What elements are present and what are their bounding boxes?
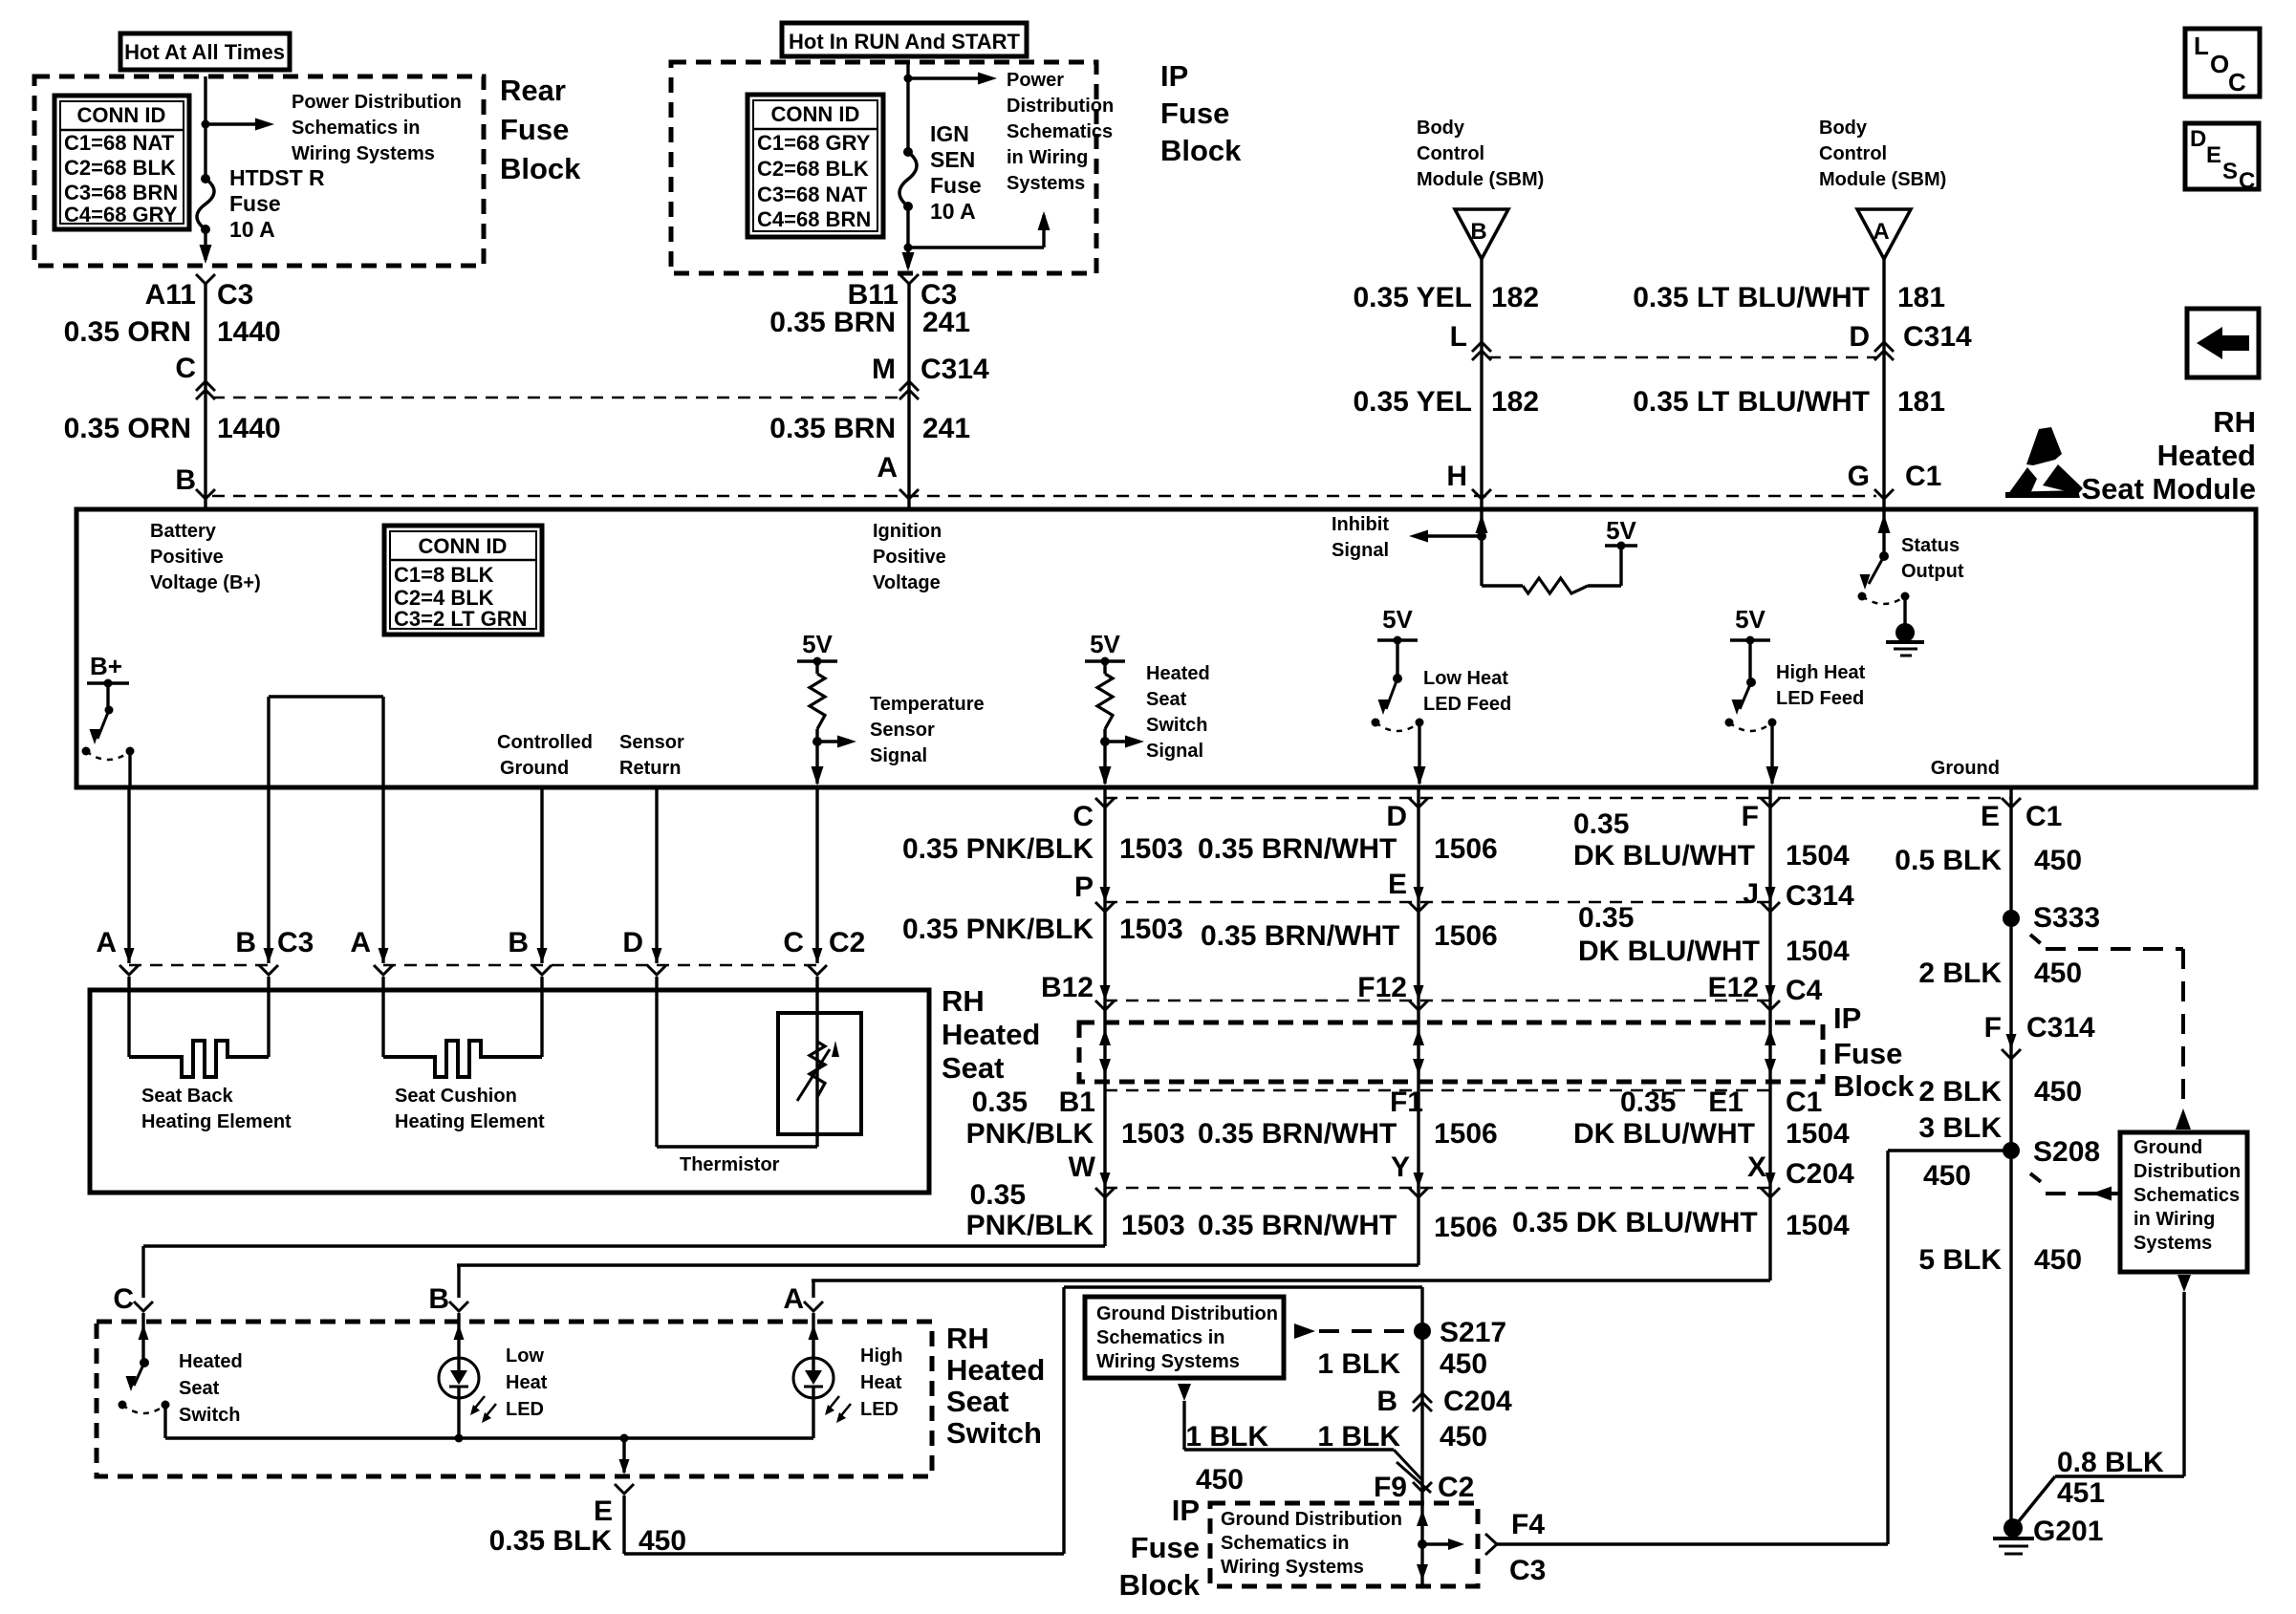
svg-text:Heat: Heat bbox=[506, 1372, 548, 1393]
svg-text:450: 450 bbox=[1196, 1464, 1244, 1496]
svg-text:A: A bbox=[350, 927, 371, 958]
svg-text:High Heat: High Heat bbox=[1776, 662, 1866, 683]
svg-text:C1: C1 bbox=[2025, 801, 2062, 832]
svg-text:450: 450 bbox=[2034, 1076, 2082, 1108]
svg-text:Controlled: Controlled bbox=[497, 732, 593, 753]
svg-text:B: B bbox=[175, 464, 196, 496]
svg-text:A: A bbox=[1873, 219, 1889, 245]
svg-text:Fuse: Fuse bbox=[1833, 1037, 1902, 1070]
svg-text:F4: F4 bbox=[1511, 1509, 1545, 1540]
svg-text:241: 241 bbox=[922, 307, 970, 338]
svg-text:450: 450 bbox=[2034, 1244, 2082, 1276]
svg-text:10 A: 10 A bbox=[229, 217, 275, 242]
svg-text:0.35 BRN: 0.35 BRN bbox=[769, 413, 896, 444]
svg-text:0.35 BRN/WHT: 0.35 BRN/WHT bbox=[1198, 1118, 1397, 1150]
svg-text:0.35: 0.35 bbox=[1578, 902, 1634, 934]
svg-text:C1: C1 bbox=[1905, 461, 1941, 492]
svg-text:182: 182 bbox=[1491, 282, 1539, 313]
svg-text:450: 450 bbox=[2034, 958, 2082, 989]
svg-text:1504: 1504 bbox=[1786, 840, 1850, 872]
svg-text:Positive: Positive bbox=[873, 547, 946, 568]
svg-text:C1=8 BLK: C1=8 BLK bbox=[394, 563, 494, 587]
svg-text:C314: C314 bbox=[1903, 321, 1972, 353]
svg-text:C3: C3 bbox=[277, 927, 314, 958]
svg-text:Schematics in: Schematics in bbox=[1096, 1327, 1225, 1348]
svg-text:C314: C314 bbox=[1786, 880, 1854, 912]
svg-text:Switch: Switch bbox=[179, 1405, 240, 1426]
svg-text:A: A bbox=[96, 927, 117, 958]
svg-text:PNK/BLK: PNK/BLK bbox=[966, 1210, 1094, 1241]
svg-text:C3=2 LT GRN: C3=2 LT GRN bbox=[394, 607, 528, 631]
svg-text:Switch: Switch bbox=[1146, 715, 1207, 736]
svg-text:Control: Control bbox=[1417, 143, 1484, 164]
svg-text:Seat Cushion: Seat Cushion bbox=[395, 1086, 517, 1107]
svg-text:E: E bbox=[594, 1496, 613, 1527]
svg-text:Heated: Heated bbox=[942, 1018, 1040, 1051]
svg-text:W: W bbox=[1069, 1151, 1096, 1183]
svg-text:Heated: Heated bbox=[1146, 663, 1210, 684]
svg-text:451: 451 bbox=[2057, 1477, 2105, 1509]
svg-text:RH: RH bbox=[942, 984, 985, 1018]
svg-text:5V: 5V bbox=[802, 630, 833, 658]
svg-text:Seat Back: Seat Back bbox=[141, 1086, 233, 1107]
svg-text:DK BLU/WHT: DK BLU/WHT bbox=[1573, 840, 1755, 872]
svg-text:Power Distribution: Power Distribution bbox=[292, 92, 462, 113]
svg-text:1504: 1504 bbox=[1786, 1210, 1850, 1241]
svg-text:Wiring Systems: Wiring Systems bbox=[292, 143, 435, 164]
svg-text:LED: LED bbox=[506, 1399, 544, 1420]
svg-text:Inhibit: Inhibit bbox=[1332, 514, 1389, 535]
svg-text:Ground: Ground bbox=[2134, 1137, 2202, 1158]
svg-text:1506: 1506 bbox=[1434, 1212, 1498, 1243]
svg-text:Seat: Seat bbox=[942, 1051, 1004, 1085]
svg-text:Systems: Systems bbox=[1007, 173, 1085, 194]
svg-text:Thermistor: Thermistor bbox=[680, 1154, 780, 1175]
svg-text:182: 182 bbox=[1491, 386, 1539, 418]
svg-text:DK BLU/WHT: DK BLU/WHT bbox=[1573, 1118, 1755, 1150]
svg-text:C2: C2 bbox=[1438, 1472, 1474, 1503]
svg-text:PNK/BLK: PNK/BLK bbox=[966, 1118, 1094, 1150]
svg-text:5V: 5V bbox=[1090, 630, 1120, 658]
svg-text:5 BLK: 5 BLK bbox=[1918, 1244, 2002, 1276]
svg-text:C2=68 BLK: C2=68 BLK bbox=[757, 157, 869, 181]
svg-text:LED Feed: LED Feed bbox=[1423, 694, 1511, 715]
svg-text:M: M bbox=[872, 354, 896, 385]
svg-text:F: F bbox=[1984, 1012, 2002, 1044]
svg-text:F1: F1 bbox=[1390, 1087, 1423, 1118]
svg-text:2 BLK: 2 BLK bbox=[1918, 1076, 2002, 1108]
svg-text:B1: B1 bbox=[1059, 1087, 1095, 1118]
svg-text:F12: F12 bbox=[1357, 972, 1407, 1003]
svg-text:C314: C314 bbox=[2026, 1012, 2095, 1044]
svg-text:Module (SBM): Module (SBM) bbox=[1417, 169, 1544, 190]
svg-text:Status: Status bbox=[1901, 535, 1960, 556]
svg-text:C: C bbox=[2239, 168, 2255, 194]
svg-text:Battery: Battery bbox=[150, 521, 217, 542]
svg-text:0.5 BLK: 0.5 BLK bbox=[1895, 845, 2002, 876]
svg-text:Block: Block bbox=[1119, 1568, 1201, 1602]
svg-text:Fuse: Fuse bbox=[1160, 97, 1229, 130]
svg-text:High: High bbox=[860, 1345, 902, 1367]
svg-text:0.35 PNK/BLK: 0.35 PNK/BLK bbox=[902, 914, 1094, 945]
svg-text:450: 450 bbox=[1923, 1160, 1971, 1192]
svg-text:B12: B12 bbox=[1041, 972, 1094, 1003]
svg-text:CONN ID: CONN ID bbox=[77, 103, 166, 127]
svg-text:Positive: Positive bbox=[150, 547, 224, 568]
svg-text:C2=68 BLK: C2=68 BLK bbox=[64, 156, 176, 180]
svg-text:1503: 1503 bbox=[1119, 833, 1183, 865]
svg-text:0.35 PNK/BLK: 0.35 PNK/BLK bbox=[902, 833, 1094, 865]
svg-text:C3: C3 bbox=[1509, 1555, 1546, 1586]
svg-text:0.35: 0.35 bbox=[1620, 1087, 1676, 1118]
svg-text:1 BLK: 1 BLK bbox=[1317, 1421, 1400, 1453]
svg-text:L: L bbox=[2194, 32, 2209, 60]
svg-text:C4=68 GRY: C4=68 GRY bbox=[64, 203, 178, 226]
svg-text:C204: C204 bbox=[1443, 1386, 1512, 1417]
svg-text:G: G bbox=[1848, 461, 1870, 492]
svg-text:3 BLK: 3 BLK bbox=[1918, 1112, 2002, 1144]
svg-text:Fuse: Fuse bbox=[229, 191, 281, 216]
svg-text:1503: 1503 bbox=[1119, 914, 1183, 945]
svg-text:C4: C4 bbox=[1786, 975, 1823, 1006]
svg-text:B: B bbox=[428, 1283, 449, 1315]
svg-text:Signal: Signal bbox=[1146, 741, 1203, 762]
svg-text:C1=68 NAT: C1=68 NAT bbox=[64, 131, 175, 155]
svg-text:Heated: Heated bbox=[2157, 439, 2256, 472]
svg-text:0.35 YEL: 0.35 YEL bbox=[1353, 282, 1472, 313]
svg-text:B: B bbox=[1376, 1386, 1397, 1417]
svg-text:10 A: 10 A bbox=[930, 199, 976, 224]
svg-text:1503: 1503 bbox=[1121, 1210, 1185, 1241]
svg-text:Heat: Heat bbox=[860, 1372, 902, 1393]
svg-text:1506: 1506 bbox=[1434, 920, 1498, 952]
svg-text:0.35 ORN: 0.35 ORN bbox=[64, 316, 191, 348]
svg-text:D: D bbox=[1386, 801, 1407, 832]
svg-text:Power: Power bbox=[1007, 70, 1064, 91]
svg-text:Wiring Systems: Wiring Systems bbox=[1221, 1557, 1364, 1578]
svg-text:B: B bbox=[508, 927, 529, 958]
svg-text:241: 241 bbox=[922, 413, 970, 444]
svg-text:1506: 1506 bbox=[1434, 1118, 1498, 1150]
svg-text:Block: Block bbox=[500, 152, 581, 185]
svg-text:5V: 5V bbox=[1735, 605, 1765, 634]
svg-text:Hot In RUN And START: Hot In RUN And START bbox=[789, 30, 1021, 54]
svg-text:C4=68 BRN: C4=68 BRN bbox=[757, 207, 871, 231]
svg-text:5V: 5V bbox=[1382, 605, 1413, 634]
svg-text:D: D bbox=[1849, 321, 1870, 353]
svg-text:Distribution: Distribution bbox=[2134, 1161, 2241, 1182]
svg-text:C3=68 NAT: C3=68 NAT bbox=[757, 183, 868, 206]
svg-text:0.8 BLK: 0.8 BLK bbox=[2057, 1447, 2164, 1478]
svg-text:450: 450 bbox=[639, 1525, 686, 1557]
svg-text:Sensor: Sensor bbox=[870, 720, 935, 741]
svg-text:Body: Body bbox=[1417, 118, 1465, 139]
svg-text:IGN: IGN bbox=[930, 121, 969, 146]
svg-text:1440: 1440 bbox=[217, 413, 281, 444]
svg-text:Systems: Systems bbox=[2134, 1233, 2212, 1254]
svg-text:Seat: Seat bbox=[946, 1385, 1008, 1418]
svg-text:LED Feed: LED Feed bbox=[1776, 688, 1864, 709]
svg-text:1506: 1506 bbox=[1434, 833, 1498, 865]
svg-text:Low Heat: Low Heat bbox=[1423, 668, 1508, 689]
svg-text:Body: Body bbox=[1819, 118, 1868, 139]
svg-text:IP: IP bbox=[1833, 1001, 1861, 1035]
svg-text:B: B bbox=[235, 927, 256, 958]
svg-text:LED: LED bbox=[860, 1399, 899, 1420]
svg-text:Fuse: Fuse bbox=[500, 113, 569, 146]
svg-text:D: D bbox=[2190, 126, 2206, 152]
svg-text:S333: S333 bbox=[2033, 902, 2100, 934]
svg-text:1504: 1504 bbox=[1786, 1118, 1850, 1150]
svg-text:Fuse: Fuse bbox=[1131, 1531, 1200, 1564]
svg-text:Schematics: Schematics bbox=[2134, 1185, 2240, 1206]
svg-text:Ground Distribution: Ground Distribution bbox=[1096, 1303, 1278, 1324]
svg-text:Signal: Signal bbox=[870, 745, 927, 766]
svg-text:Schematics in: Schematics in bbox=[1221, 1533, 1350, 1554]
svg-text:IP: IP bbox=[1172, 1494, 1200, 1527]
svg-text:S208: S208 bbox=[2033, 1136, 2100, 1168]
svg-text:HTDST R: HTDST R bbox=[229, 165, 325, 190]
svg-text:Output: Output bbox=[1901, 561, 1964, 582]
svg-text:5V: 5V bbox=[1606, 516, 1636, 545]
svg-text:C3=68 BRN: C3=68 BRN bbox=[64, 181, 178, 204]
svg-text:Fuse: Fuse bbox=[930, 173, 982, 198]
svg-text:C1=68 GRY: C1=68 GRY bbox=[757, 131, 871, 155]
svg-text:IP: IP bbox=[1160, 59, 1188, 93]
svg-text:C: C bbox=[1072, 801, 1094, 832]
svg-text:0.35: 0.35 bbox=[972, 1087, 1028, 1118]
svg-text:Seat: Seat bbox=[1146, 689, 1187, 710]
svg-text:Seat: Seat bbox=[179, 1378, 220, 1399]
svg-text:Heated: Heated bbox=[179, 1351, 243, 1372]
svg-text:CONN ID: CONN ID bbox=[771, 102, 860, 126]
svg-text:Voltage (B+): Voltage (B+) bbox=[150, 572, 261, 593]
svg-text:in Wiring: in Wiring bbox=[2134, 1209, 2215, 1230]
svg-text:1440: 1440 bbox=[217, 316, 281, 348]
svg-text:Wiring Systems: Wiring Systems bbox=[1096, 1351, 1240, 1372]
svg-text:Schematics: Schematics bbox=[1007, 121, 1113, 142]
svg-text:Ground: Ground bbox=[1931, 758, 2000, 779]
svg-text:0.35 BRN/WHT: 0.35 BRN/WHT bbox=[1198, 833, 1397, 865]
svg-text:2 BLK: 2 BLK bbox=[1918, 958, 2002, 989]
svg-text:0.35 BLK: 0.35 BLK bbox=[489, 1525, 613, 1557]
svg-text:0.35 BRN/WHT: 0.35 BRN/WHT bbox=[1198, 1210, 1397, 1241]
svg-text:Rear: Rear bbox=[500, 74, 566, 107]
svg-text:1 BLK: 1 BLK bbox=[1185, 1421, 1268, 1453]
svg-text:C3: C3 bbox=[217, 279, 253, 311]
svg-text:Block: Block bbox=[1160, 134, 1242, 167]
svg-text:Module (SBM): Module (SBM) bbox=[1819, 169, 1946, 190]
svg-text:C: C bbox=[175, 353, 196, 384]
svg-text:181: 181 bbox=[1897, 386, 1945, 418]
svg-text:CONN ID: CONN ID bbox=[419, 534, 508, 558]
svg-text:C1: C1 bbox=[1786, 1087, 1822, 1118]
svg-text:Ground: Ground bbox=[500, 758, 569, 779]
svg-text:Control: Control bbox=[1819, 143, 1887, 164]
svg-text:F9: F9 bbox=[1374, 1472, 1407, 1503]
svg-text:Y: Y bbox=[1391, 1151, 1410, 1183]
svg-text:Heating Element: Heating Element bbox=[395, 1111, 545, 1132]
svg-text:H: H bbox=[1446, 461, 1467, 492]
svg-text:0.35 ORN: 0.35 ORN bbox=[64, 413, 191, 444]
svg-text:A: A bbox=[877, 452, 898, 484]
svg-text:A11: A11 bbox=[145, 279, 196, 311]
svg-text:Return: Return bbox=[619, 758, 681, 779]
svg-text:SEN: SEN bbox=[930, 147, 975, 172]
svg-text:RH: RH bbox=[946, 1322, 989, 1355]
svg-text:C2: C2 bbox=[829, 927, 865, 958]
svg-text:L: L bbox=[1450, 321, 1467, 353]
svg-text:X: X bbox=[1747, 1151, 1766, 1183]
svg-text:B: B bbox=[1470, 219, 1486, 245]
svg-text:450: 450 bbox=[2034, 845, 2082, 876]
svg-text:Temperature: Temperature bbox=[870, 694, 985, 715]
svg-text:1 BLK: 1 BLK bbox=[1317, 1348, 1400, 1380]
svg-text:181: 181 bbox=[1897, 282, 1945, 313]
svg-text:Distribution: Distribution bbox=[1007, 96, 1114, 117]
svg-text:Block: Block bbox=[1833, 1069, 1915, 1103]
svg-text:O: O bbox=[2210, 50, 2229, 78]
svg-text:Signal: Signal bbox=[1332, 540, 1389, 561]
svg-text:450: 450 bbox=[1440, 1421, 1487, 1453]
svg-text:0.35: 0.35 bbox=[970, 1179, 1026, 1211]
svg-text:Heating Element: Heating Element bbox=[141, 1111, 292, 1132]
svg-text:C: C bbox=[2228, 68, 2246, 97]
svg-text:E1: E1 bbox=[1708, 1087, 1744, 1118]
svg-text:P: P bbox=[1074, 872, 1094, 903]
svg-text:F: F bbox=[1742, 801, 1759, 832]
svg-text:E: E bbox=[1981, 801, 2000, 832]
svg-text:J: J bbox=[1743, 878, 1759, 910]
svg-text:Switch: Switch bbox=[946, 1416, 1042, 1450]
svg-text:Seat Module: Seat Module bbox=[2081, 472, 2256, 506]
svg-text:Ignition: Ignition bbox=[873, 521, 942, 542]
svg-text:C204: C204 bbox=[1786, 1158, 1854, 1190]
svg-text:S217: S217 bbox=[1440, 1317, 1506, 1348]
svg-text:E: E bbox=[1388, 869, 1407, 900]
svg-text:0.35: 0.35 bbox=[1573, 808, 1629, 840]
svg-text:Voltage: Voltage bbox=[873, 572, 941, 593]
svg-text:1504: 1504 bbox=[1786, 936, 1850, 967]
svg-text:0.35 BRN/WHT: 0.35 BRN/WHT bbox=[1201, 920, 1399, 952]
svg-text:0.35 LT BLU/WHT: 0.35 LT BLU/WHT bbox=[1633, 282, 1870, 313]
svg-text:0.35 LT BLU/WHT: 0.35 LT BLU/WHT bbox=[1633, 386, 1870, 418]
svg-text:Sensor: Sensor bbox=[619, 732, 684, 753]
svg-text:A: A bbox=[783, 1283, 804, 1315]
svg-text:RH: RH bbox=[2213, 405, 2256, 439]
svg-text:E12: E12 bbox=[1708, 972, 1759, 1003]
svg-text:1503: 1503 bbox=[1121, 1118, 1185, 1150]
svg-text:Heated: Heated bbox=[946, 1353, 1045, 1387]
svg-text:in Wiring: in Wiring bbox=[1007, 147, 1088, 168]
svg-text:E: E bbox=[2206, 142, 2221, 168]
svg-text:0.35 BRN: 0.35 BRN bbox=[769, 307, 896, 338]
svg-text:C: C bbox=[783, 927, 804, 958]
svg-text:Hot At All Times: Hot At All Times bbox=[124, 40, 285, 64]
svg-text:B+: B+ bbox=[90, 652, 122, 680]
svg-text:0.35 DK BLU/WHT: 0.35 DK BLU/WHT bbox=[1512, 1207, 1758, 1238]
svg-text:S: S bbox=[2222, 159, 2238, 184]
svg-text:DK BLU/WHT: DK BLU/WHT bbox=[1578, 936, 1760, 967]
svg-text:D: D bbox=[622, 927, 643, 958]
svg-text:Schematics in: Schematics in bbox=[292, 118, 421, 139]
svg-text:C: C bbox=[113, 1283, 134, 1315]
svg-text:G201: G201 bbox=[2033, 1516, 2103, 1547]
svg-text:450: 450 bbox=[1440, 1348, 1487, 1380]
svg-text:Low: Low bbox=[506, 1345, 544, 1367]
svg-text:C314: C314 bbox=[921, 354, 989, 385]
svg-text:Ground Distribution: Ground Distribution bbox=[1221, 1509, 1402, 1530]
svg-text:0.35 YEL: 0.35 YEL bbox=[1353, 386, 1472, 418]
